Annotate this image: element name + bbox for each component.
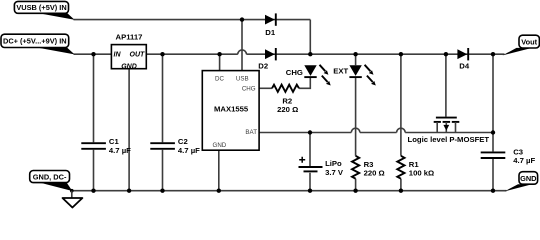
net tag GND, DC- (30, 171, 73, 192)
node junction C2 (160, 52, 164, 56)
wire DC+ rail (tag to AP1117 IN) (74, 53, 112, 55)
node junction diode outputs (308, 52, 312, 56)
svg-text:USB: USB (236, 75, 249, 82)
wire AP1117 GND to ground rail (128, 69, 130, 191)
capacitor C1 4.7uF (81, 137, 131, 155)
wire C2 branch (162, 54, 164, 142)
wire CHG LED vertical + R2 link (299, 77, 310, 88)
resistor R3 220 ohm (352, 156, 385, 179)
node ground rail junction C3 (491, 189, 495, 193)
node junction C1 (91, 52, 95, 56)
svg-text:3.7 V: 3.7 V (325, 168, 344, 177)
svg-text:CHG: CHG (286, 68, 303, 77)
node ground rail junction R1 (399, 189, 403, 193)
node junction D4 cathode / C3 (491, 52, 495, 56)
diode D2 (258, 48, 276, 71)
svg-text:GND: GND (121, 63, 137, 70)
svg-text:GND: GND (520, 174, 537, 183)
svg-text:100 kΩ: 100 kΩ (409, 169, 434, 178)
node junction EXT branch (353, 52, 357, 56)
wire C1 branch (93, 54, 95, 142)
node ground rail junction C1 (91, 189, 95, 193)
svg-text:4.7 µF: 4.7 µF (513, 156, 535, 165)
svg-text:OUT: OUT (130, 52, 146, 59)
capacitor C2 4.7uF (150, 137, 200, 155)
svg-text:LiPo: LiPo (325, 159, 342, 168)
net tag GND (right) (505, 172, 538, 192)
svg-text:Vout: Vout (521, 37, 537, 46)
wire VUSB top rail (74, 19, 311, 21)
node junction MOSFET gate (444, 52, 448, 56)
LED EXT (333, 65, 376, 86)
net tag VUSB (+5V) IN (14, 1, 74, 19)
transistor Q1 logic level P-MOSFET (408, 118, 490, 144)
svg-text:BAT: BAT (245, 129, 257, 136)
wire D1 output corner vertical (309, 20, 311, 55)
node junction VUSB/USB (240, 17, 244, 21)
LED CHG (286, 65, 331, 86)
battery LiPo 3.7V (299, 157, 344, 177)
charger IC U2 MAX1555 (202, 71, 259, 151)
node junction BAT/LiPo (308, 130, 312, 134)
svg-text:4.7 µF: 4.7 µF (178, 146, 200, 155)
svg-text:D4: D4 (459, 61, 470, 70)
wire C3 / Vout branch (492, 54, 494, 151)
wire BAT rail segment 1 (259, 132, 351, 134)
wire EXT/R3 branch (355, 54, 357, 65)
node ground rail junction AP1117 GND (127, 189, 131, 193)
wire MAX1555 GND to ground rail (218, 150, 220, 191)
svg-text:DC: DC (215, 75, 224, 82)
node ground symbol junction (70, 189, 74, 193)
net tag DC+ (+5V...+9V) IN (1, 34, 75, 54)
svg-text:D1: D1 (265, 28, 276, 37)
wire hop over USB branch (238, 50, 247, 54)
svg-text:VUSB (+5V) IN: VUSB (+5V) IN (16, 3, 66, 12)
net tag Vout (503, 35, 540, 55)
svg-text:CHG: CHG (242, 85, 256, 92)
resistor R2 220 ohm (272, 85, 299, 115)
node junction R1 branch (399, 52, 403, 56)
regulator U1 AP1117 (111, 33, 146, 71)
wire ground rail (71, 190, 507, 192)
wire hop over EXT branch (351, 128, 360, 132)
wire DC branch vertical (219, 54, 221, 70)
capacitor C3 4.7uF (481, 148, 536, 165)
svg-text:220 Ω: 220 Ω (277, 105, 298, 114)
svg-text:GND, DC-: GND, DC- (33, 172, 67, 181)
resistor R1 100 kohm (397, 156, 434, 179)
node junction MOSFET drain / C3 (491, 130, 495, 134)
svg-text:R2: R2 (282, 96, 292, 105)
wire R1 branch (400, 54, 402, 156)
wire hop over R1 branch (397, 128, 406, 132)
wire LiPo branch (309, 133, 311, 167)
diode D1 (265, 13, 276, 37)
wire BAT rail segment 2 (360, 132, 397, 134)
node ground rail junction MAX1555 GND (217, 189, 221, 193)
diode D4 (457, 48, 469, 70)
svg-text:MAX1555: MAX1555 (214, 105, 249, 114)
svg-text:220 Ω: 220 Ω (364, 169, 385, 178)
node ground rail junction C2 (160, 189, 164, 193)
wire MOSFET gate branch (445, 54, 447, 116)
svg-text:Logic level P-MOSFET: Logic level P-MOSFET (408, 135, 490, 144)
svg-text:GND: GND (213, 142, 227, 149)
svg-text:D2: D2 (258, 62, 268, 71)
node junction DC branch (217, 52, 221, 56)
svg-text:C2: C2 (178, 137, 188, 146)
svg-text:EXT: EXT (333, 67, 348, 76)
wire USB branch vertical (241, 20, 243, 71)
wire BAT rail segment 3 (MOSFET source/drain line) (405, 132, 493, 134)
ground (63, 191, 83, 208)
svg-text:4.7 µF: 4.7 µF (109, 146, 131, 155)
svg-text:AP1117: AP1117 (116, 33, 143, 42)
wire AP1117 OUT rail to hop (146, 53, 238, 55)
node ground rail junction R3 (353, 189, 357, 193)
wire rail hop to Vout wedge (246, 53, 504, 55)
svg-text:DC+ (+5V...+9V) IN: DC+ (+5V...+9V) IN (3, 37, 67, 46)
svg-text:C1: C1 (109, 137, 120, 146)
node ground rail junction LiPo (308, 189, 312, 193)
svg-text:IN: IN (114, 52, 122, 59)
